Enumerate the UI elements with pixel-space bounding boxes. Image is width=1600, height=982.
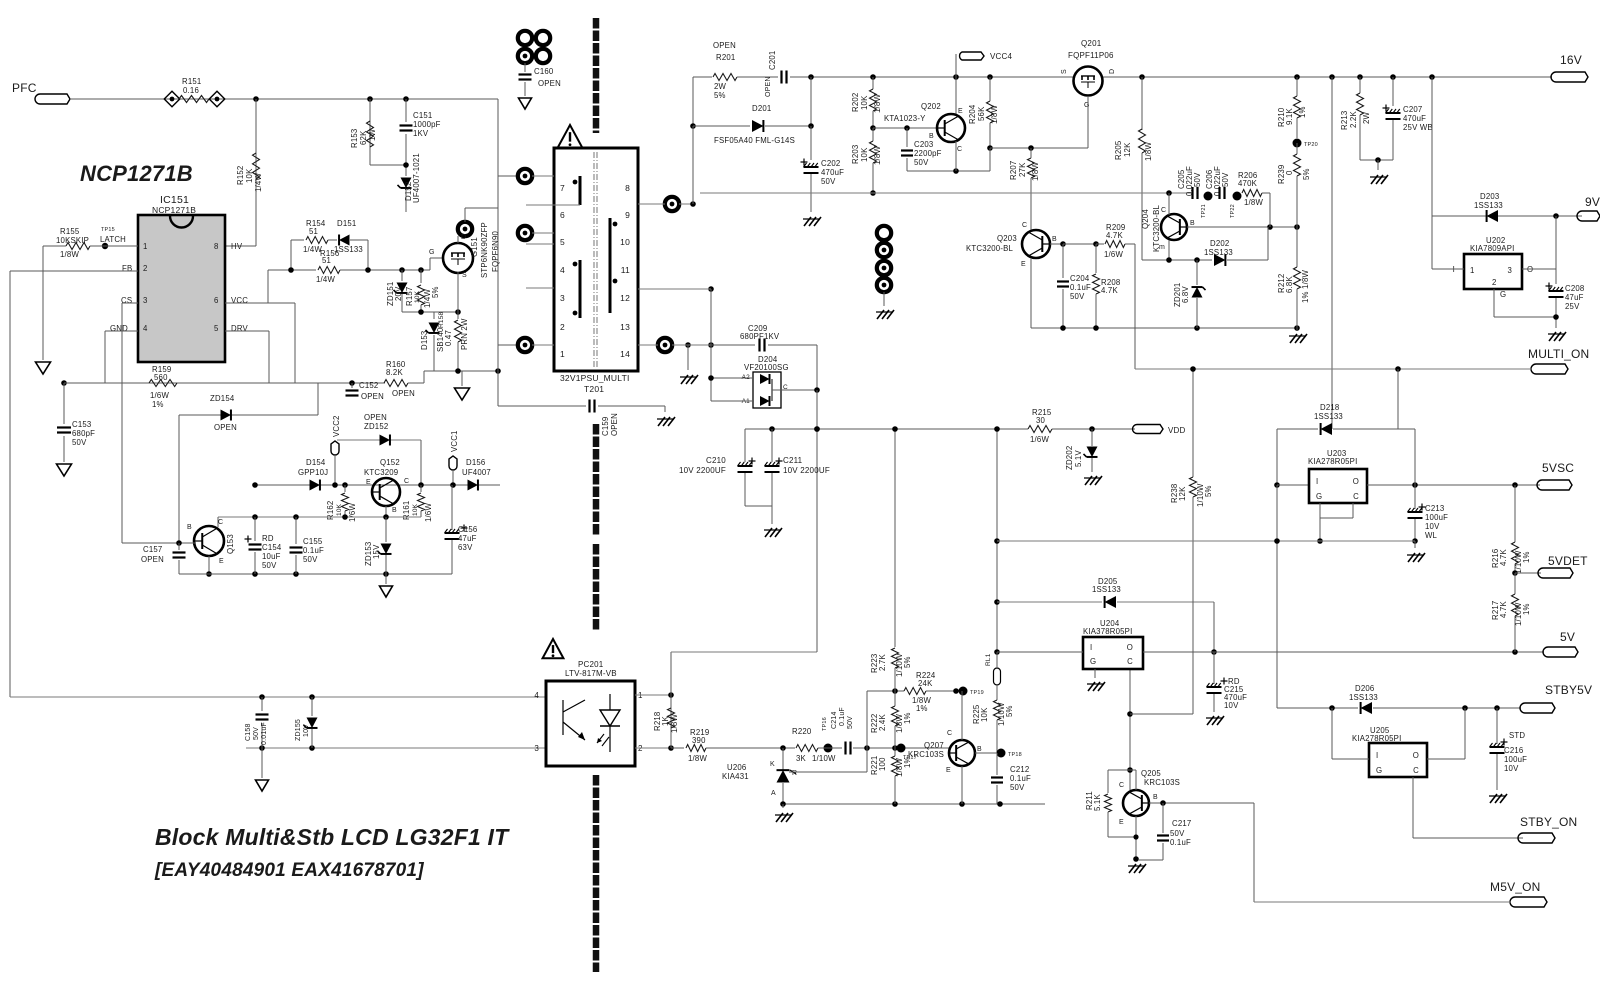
svg-text:1/8W: 1/8W [688,754,707,763]
svg-text:51: 51 [322,256,331,265]
svg-text:1%: 1% [1522,603,1531,615]
svg-text:PC201: PC201 [578,660,604,669]
svg-text:3: 3 [560,293,565,303]
svg-text:C160: C160 [534,67,554,76]
svg-text:D203: D203 [1480,192,1499,201]
svg-text:C216: C216 [1504,746,1523,755]
svg-text:G: G [1316,492,1322,501]
svg-text:100uF: 100uF [1504,755,1527,764]
svg-text:Q202: Q202 [921,102,941,111]
svg-text:KIA7809API: KIA7809API [1470,244,1514,253]
svg-text:VDD: VDD [1168,426,1186,435]
svg-text:R152: R152 [236,166,245,185]
svg-text:R201: R201 [716,53,735,62]
svg-text:TP19: TP19 [970,690,984,696]
svg-text:12: 12 [620,293,630,303]
svg-text:5%: 5% [1302,168,1311,180]
svg-text:DRV: DRV [231,324,249,333]
svg-text:1/4W: 1/4W [316,275,335,284]
svg-text:FSF05A40 FML-G14S: FSF05A40 FML-G14S [714,136,795,145]
svg-text:G: G [1500,290,1506,299]
svg-text:KIA278R05PI: KIA278R05PI [1308,457,1357,466]
svg-text:E: E [1021,261,1026,268]
svg-text:5%: 5% [431,286,440,298]
svg-text:1/8W: 1/8W [60,250,79,259]
svg-text:24K: 24K [918,679,933,688]
svg-text:50V: 50V [253,727,260,740]
svg-text:Block Multi&Stb LCD LG32F1 IT: Block Multi&Stb LCD LG32F1 IT [155,824,510,850]
svg-text:OPEN: OPEN [765,76,772,97]
svg-text:I: I [1090,643,1092,652]
svg-text:56K: 56K [977,106,986,121]
svg-text:C: C [218,519,223,526]
svg-text:4.7K: 4.7K [1101,286,1118,295]
svg-text:Q153: Q153 [226,534,235,554]
svg-text:WL: WL [1425,531,1438,540]
svg-text:4.7K: 4.7K [1499,549,1508,566]
svg-text:5VDET: 5VDET [1548,554,1588,568]
svg-text:TP21: TP21 [1201,204,1207,218]
svg-text:10: 10 [620,237,630,247]
svg-text:15V: 15V [372,544,381,559]
svg-text:5.1V: 5.1V [1074,450,1083,467]
svg-text:OPEN: OPEN [538,79,561,88]
svg-text:B: B [929,133,934,140]
svg-text:0: 0 [1285,170,1294,175]
svg-text:0.16: 0.16 [183,86,199,95]
svg-text:10V 2200UF: 10V 2200UF [679,466,726,475]
svg-text:3: 3 [143,296,148,305]
svg-text:KIA278R05PI: KIA278R05PI [1352,734,1401,743]
svg-text:2W: 2W [714,82,727,91]
svg-text:KIA378R05PI: KIA378R05PI [1083,627,1132,636]
svg-text:C203: C203 [914,140,933,149]
svg-text:9: 9 [625,210,630,220]
svg-text:5: 5 [560,237,565,247]
svg-text:RD: RD [262,534,274,543]
svg-text:4.7K: 4.7K [1106,231,1123,240]
svg-text:R204: R204 [968,104,977,124]
svg-text:10K: 10K [860,147,869,162]
svg-text:C213: C213 [1425,504,1444,513]
svg-text:KRC103S: KRC103S [908,750,944,759]
svg-text:0.1uF: 0.1uF [839,707,846,726]
svg-text:R202: R202 [851,93,860,112]
svg-text:ZD152: ZD152 [364,422,388,431]
svg-text:C: C [1413,766,1419,775]
svg-text:D154: D154 [306,458,326,467]
svg-text:C210: C210 [706,456,726,465]
svg-text:[EAY40484901 EAX41678701]: [EAY40484901 EAX41678701] [154,860,424,881]
svg-text:Q203: Q203 [997,234,1017,243]
svg-text:TP22: TP22 [1230,204,1236,218]
svg-text:G: G [1376,766,1382,775]
svg-text:51: 51 [309,227,318,236]
svg-text:VCC1: VCC1 [450,430,459,452]
svg-text:10V: 10V [1425,522,1440,531]
svg-text:C154: C154 [262,543,282,552]
svg-text:50V: 50V [72,438,87,447]
svg-text:9.1K: 9.1K [1285,108,1294,125]
svg-text:VCC4: VCC4 [990,52,1012,61]
svg-text:10K: 10K [860,95,869,110]
svg-text:0.1uF: 0.1uF [1010,774,1031,783]
svg-text:100uF: 100uF [1425,513,1448,522]
svg-text:50V: 50V [1221,172,1230,187]
svg-text:KTC3209: KTC3209 [364,468,398,477]
svg-text:D218: D218 [1320,403,1339,412]
svg-text:C208: C208 [1565,284,1584,293]
svg-text:G: G [429,249,435,256]
svg-text:1K: 1K [661,715,670,726]
svg-text:10uF: 10uF [262,552,281,561]
svg-text:1/6W: 1/6W [424,503,433,522]
svg-text:13: 13 [620,322,630,332]
svg-text:B: B [977,746,982,753]
svg-text:1%: 1% [1298,106,1307,118]
svg-text:M5V_ON: M5V_ON [1490,880,1541,894]
svg-text:4.7K: 4.7K [1499,601,1508,618]
svg-text:C202: C202 [821,159,840,168]
svg-text:680pF: 680pF [72,429,95,438]
svg-text:C: C [947,730,952,737]
svg-text:63V: 63V [458,543,473,552]
svg-text:S: S [1061,69,1068,74]
svg-text:TP16: TP16 [822,717,828,731]
svg-text:8: 8 [625,183,630,193]
svg-text:B: B [392,507,397,514]
svg-text:NCP1271B: NCP1271B [152,205,196,215]
svg-text:50V: 50V [914,158,929,167]
svg-text:560: 560 [154,373,168,382]
svg-text:14: 14 [620,349,630,359]
svg-text:OPEN: OPEN [214,423,237,432]
svg-text:R158: R158 [438,311,445,328]
svg-text:1: 1 [1470,266,1475,275]
svg-text:470K: 470K [1238,179,1258,188]
svg-text:5V: 5V [1560,630,1575,644]
svg-text:2: 2 [1492,278,1497,287]
svg-text:20V: 20V [394,286,403,301]
svg-text:4: 4 [143,324,148,333]
svg-text:UF4007-1021: UF4007-1021 [412,153,421,203]
svg-text:B: B [1153,794,1158,801]
svg-text:R220: R220 [792,727,812,736]
svg-text:B: B [1052,236,1057,243]
svg-text:1SS133: 1SS133 [1204,248,1233,257]
svg-text:1: 1 [143,242,148,251]
svg-text:OPEN: OPEN [392,389,415,398]
svg-text:1/6W: 1/6W [150,391,169,400]
svg-text:1KV: 1KV [413,129,429,138]
svg-text:10K: 10K [414,290,421,303]
svg-text:OPEN: OPEN [141,555,164,564]
svg-text:TP18: TP18 [1008,752,1022,758]
svg-text:10V 2200UF: 10V 2200UF [783,466,830,475]
svg-text:10K: 10K [245,168,254,183]
svg-text:1: 1 [560,349,565,359]
svg-text:3: 3 [534,744,539,753]
svg-text:1/8W: 1/8W [670,714,679,733]
svg-text:C217: C217 [1172,819,1191,828]
svg-text:1%: 1% [903,712,912,724]
svg-text:U206: U206 [727,763,746,772]
svg-text:6: 6 [214,296,219,305]
svg-text:1SS133: 1SS133 [1092,585,1121,594]
svg-text:STD: STD [1509,731,1525,740]
svg-text:B: B [187,524,192,531]
svg-text:VCC2: VCC2 [332,415,341,437]
svg-text:OPEN: OPEN [364,413,387,422]
svg-text:4: 4 [534,691,539,700]
svg-text:1%: 1% [152,400,164,409]
svg-text:ZD155: ZD155 [295,719,302,741]
svg-text:CS: CS [121,296,132,305]
svg-text:KRC103S: KRC103S [1144,778,1180,787]
svg-text:10V: 10V [1224,701,1239,710]
svg-text:5.1K: 5.1K [1093,794,1102,811]
svg-text:C: C [1161,207,1166,214]
svg-text:32V1PSU_MULTI: 32V1PSU_MULTI [560,373,630,383]
svg-text:50V: 50V [262,561,277,570]
svg-text:ZD154: ZD154 [210,394,235,403]
svg-text:C: C [1119,782,1124,789]
svg-text:10K: 10K [412,503,419,516]
svg-text:KIA431: KIA431 [722,772,749,781]
svg-text:STBY_ON: STBY_ON [1520,815,1577,829]
svg-text:C: C [1127,657,1133,666]
svg-text:10V: 10V [303,724,310,737]
svg-text:2W: 2W [1362,111,1371,124]
svg-text:10K: 10K [336,503,343,516]
svg-text:1/6W: 1/6W [1104,250,1123,259]
svg-text:470uF: 470uF [1403,114,1426,123]
svg-text:5%: 5% [1204,485,1213,497]
svg-text:UF4007: UF4007 [462,468,491,477]
svg-text:R207: R207 [1009,161,1018,180]
svg-text:I: I [1316,477,1318,486]
svg-text:NCP1271B: NCP1271B [80,161,193,186]
svg-text:8.2K: 8.2K [386,368,403,377]
svg-text:C156: C156 [458,525,477,534]
svg-text:1%: 1% [1522,551,1531,563]
svg-text:50V: 50V [1193,172,1202,187]
svg-text:C151: C151 [413,111,432,120]
svg-text:25V WB: 25V WB [1403,123,1433,132]
svg-text:7: 7 [560,183,565,193]
svg-text:S: S [462,272,467,279]
svg-text:C: C [957,146,962,153]
svg-text:MULTI_ON: MULTI_ON [1528,347,1589,361]
svg-text:47uF: 47uF [458,534,477,543]
svg-text:R205: R205 [1114,140,1123,160]
svg-text:390: 390 [692,736,706,745]
svg-text:2: 2 [143,264,148,273]
svg-text:D201: D201 [752,104,771,113]
svg-text:FQPF6N90: FQPF6N90 [491,231,500,272]
svg-text:TP20: TP20 [1304,142,1318,148]
svg-text:2200pF: 2200pF [914,149,942,158]
svg-text:100: 100 [878,757,887,771]
svg-text:FQPF11P06: FQPF11P06 [1068,51,1114,60]
svg-text:ZD202: ZD202 [1065,446,1074,470]
svg-text:GPP10J: GPP10J [298,468,328,477]
svg-text:OPEN: OPEN [361,392,384,401]
svg-text:0.1uF: 0.1uF [303,546,324,555]
svg-text:LTV-817M-VB: LTV-817M-VB [565,669,617,678]
svg-text:KTC3200-BL: KTC3200-BL [966,244,1014,253]
svg-text:2.4K: 2.4K [878,714,887,731]
svg-text:GND: GND [110,324,128,333]
svg-text:STP6NK90ZFP: STP6NK90ZFP [480,222,489,278]
svg-text:1/10W: 1/10W [812,754,836,763]
svg-text:47uF: 47uF [1565,293,1584,302]
svg-text:D: D [461,234,466,241]
svg-text:G151: G151 [470,237,479,257]
svg-text:5%: 5% [714,91,726,100]
svg-text:B: B [1190,220,1195,227]
svg-text:C157: C157 [143,545,162,554]
svg-text:D151: D151 [337,219,356,228]
svg-text:11: 11 [621,265,630,275]
svg-text:PRN 2W: PRN 2W [460,318,469,350]
svg-text:5: 5 [214,324,219,333]
svg-text:27K: 27K [1018,162,1027,177]
svg-text:2.7K: 2.7K [878,654,887,671]
svg-text:Q201: Q201 [1081,39,1102,48]
svg-text:1SS133: 1SS133 [1349,693,1378,702]
svg-text:Q207: Q207 [924,741,944,750]
svg-text:0.01uF: 0.01uF [261,722,268,745]
svg-text:50V: 50V [1170,829,1185,838]
svg-text:Q152: Q152 [380,458,400,467]
svg-text:0.1uF: 0.1uF [1170,838,1191,847]
svg-text:C155: C155 [303,537,323,546]
svg-text:VF20100SG: VF20100SG [744,363,789,372]
svg-text:T201: T201 [584,384,604,394]
svg-text:1W: 1W [368,128,377,141]
svg-text:1%: 1% [916,704,928,713]
svg-text:0.47: 0.47 [444,330,453,346]
svg-text:PFC: PFC [12,81,37,95]
svg-text:1/8W: 1/8W [990,105,999,124]
svg-text:4: 4 [560,265,565,275]
svg-text:O: O [1353,477,1359,486]
svg-text:C: C [1353,492,1359,501]
svg-text:R155: R155 [60,227,80,236]
svg-text:1/8W: 1/8W [873,146,882,165]
svg-text:C: C [1022,222,1027,229]
svg-text:OPEN: OPEN [713,41,736,50]
svg-text:62K: 62K [359,130,368,145]
svg-text:50V: 50V [1010,783,1025,792]
svg-text:2: 2 [560,322,565,332]
svg-text:C211: C211 [783,456,803,465]
svg-text:5%: 5% [1005,705,1014,717]
svg-text:1/8W: 1/8W [873,94,882,113]
svg-text:D153: D153 [420,331,429,350]
svg-text:E: E [946,767,951,774]
svg-text:C: C [404,478,409,485]
svg-text:Q204: Q204 [1141,209,1150,229]
svg-text:12K: 12K [1178,486,1187,501]
svg-text:TP15: TP15 [101,227,115,233]
svg-text:VCC: VCC [231,296,248,305]
svg-text:12K: 12K [1123,142,1132,157]
svg-text:3: 3 [1507,266,1512,275]
svg-text:D202: D202 [1210,239,1229,248]
svg-text:R213: R213 [1340,111,1349,130]
svg-text:10V: 10V [1504,764,1519,773]
svg-text:A: A [771,790,776,797]
svg-text:1% 1/8W: 1% 1/8W [1301,270,1310,303]
svg-text:C153: C153 [72,420,91,429]
svg-text:RL1: RL1 [985,653,992,666]
svg-text:E: E [219,558,224,565]
svg-text:6.8V: 6.8V [1181,286,1190,303]
svg-text:E: E [958,108,963,115]
svg-text:HV: HV [231,242,243,251]
svg-text:LATCH: LATCH [100,235,126,244]
svg-text:D156: D156 [466,458,485,467]
svg-text:25V: 25V [1565,302,1580,311]
svg-text:O: O [1413,751,1419,760]
svg-text:K: K [770,761,775,768]
svg-text:680PF1KV: 680PF1KV [740,332,780,341]
svg-text:E: E [1119,819,1124,826]
svg-text:2.2K: 2.2K [1349,111,1358,128]
svg-text:I: I [1376,751,1378,760]
svg-text:C158: C158 [245,723,252,741]
svg-text:m: m [1159,244,1165,251]
svg-text:1SS133: 1SS133 [1474,201,1503,210]
svg-text:FB: FB [122,264,132,273]
svg-text:8: 8 [214,242,219,251]
svg-text:C201: C201 [768,51,777,70]
svg-text:50V: 50V [303,555,318,564]
svg-text:G: G [1084,102,1090,109]
svg-text:C214: C214 [831,711,838,729]
svg-text:C159: C159 [601,417,610,436]
svg-text:C204: C204 [1070,274,1090,283]
svg-text:E: E [366,479,371,486]
svg-text:30: 30 [1036,416,1046,425]
svg-text:9V: 9V [1585,195,1600,209]
svg-text:10K: 10K [980,707,989,722]
svg-text:6: 6 [560,210,565,220]
svg-text:1000pF: 1000pF [413,120,441,129]
svg-text:D206: D206 [1355,684,1374,693]
svg-text:R157: R157 [405,287,414,306]
svg-text:3K: 3K [796,754,807,763]
svg-text:KTA1023-Y: KTA1023-Y [884,114,926,123]
svg-text:6.8K: 6.8K [1285,276,1294,293]
svg-text:50V: 50V [1070,292,1085,301]
svg-text:1/4W: 1/4W [254,173,263,192]
svg-text:16V: 16V [1560,53,1582,67]
svg-text:O: O [1127,643,1133,652]
svg-text:50V: 50V [847,716,854,729]
svg-text:1/6W: 1/6W [1030,435,1049,444]
svg-text:C207: C207 [1403,105,1422,114]
svg-text:1/8W: 1/8W [1144,142,1153,161]
svg-text:OPEN: OPEN [610,413,619,436]
svg-text:1/8W: 1/8W [1031,162,1040,181]
svg-text:D: D [1109,69,1116,74]
svg-text:10KSKIP: 10KSKIP [56,236,89,245]
svg-text:5%: 5% [903,656,912,668]
svg-text:C152: C152 [359,381,378,390]
